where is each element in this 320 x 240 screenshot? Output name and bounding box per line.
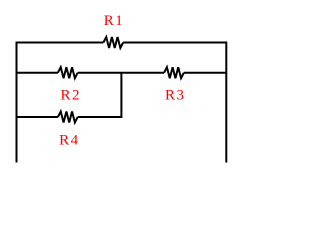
wire middle vertical <box>120 73 122 118</box>
wire bottom row left segment <box>17 116 58 118</box>
wire middle row left segment <box>17 72 58 74</box>
wire left vertical <box>16 42 18 163</box>
wire right vertical <box>225 42 227 163</box>
resistor R3 <box>164 67 184 78</box>
svg-text:R3: R3 <box>165 88 186 104</box>
resistor R4 <box>58 112 78 123</box>
resistor R1 <box>103 37 123 48</box>
wire bottom row right segment <box>78 116 122 118</box>
svg-text:R4: R4 <box>59 133 80 149</box>
resistor R2 <box>58 67 78 78</box>
svg-text:R2: R2 <box>61 88 82 104</box>
wire middle row center segment <box>78 72 164 74</box>
wire top-left segment <box>17 42 104 44</box>
wire top-right segment <box>123 42 226 44</box>
svg-text:R1: R1 <box>104 13 125 29</box>
wire middle row right segment <box>184 72 226 74</box>
